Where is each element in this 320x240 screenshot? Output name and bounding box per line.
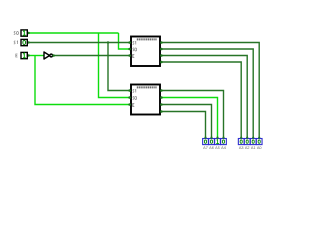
input S0 (14, 30, 27, 36)
svg-text:A6: A6 (209, 146, 214, 150)
svg-text:A4: A4 (221, 146, 226, 150)
wire U2 output Y1 to A5 (high) (160, 98, 218, 139)
svg-text:A7: A7 (203, 146, 208, 150)
inverter NOT gate on E line (44, 52, 55, 59)
wire U1 output Y2 to A2 (160, 56, 247, 139)
wire S1 branch vertical to U2 (108, 43, 131, 91)
output A6 (209, 139, 215, 151)
wire U2 output Y2 to A6 (160, 105, 212, 139)
wire NOT-E from inverter to U1 enable (53, 55, 131, 57)
U1 pin S0 label (133, 48, 135, 51)
wire E branch vertical to U2 enable (35, 56, 131, 105)
svg-text:A3: A3 (239, 146, 244, 150)
wire end nodes at output probes (204, 137, 260, 139)
wire U1 output Y3 to A3 (160, 62, 241, 138)
output A4 (221, 139, 227, 151)
U2 pin E label (133, 104, 135, 107)
node at input S1 pin (27, 41, 29, 43)
wire S1 horizontal into U1 pin S1 (28, 42, 131, 44)
U1 pin E label (133, 55, 135, 58)
output A3 (238, 139, 244, 151)
svg-text:A0: A0 (257, 146, 262, 150)
node at input S0 pin (27, 32, 29, 34)
input S1 (14, 39, 27, 45)
wire S0 jog down into U1 pin S0 (119, 33, 131, 49)
svg-text:A1: A1 (251, 146, 256, 150)
output A7 (203, 139, 209, 151)
pin connection nodes on U1 and U2 (128, 41, 162, 113)
node at input E pin (27, 54, 29, 56)
junction S1 branch (107, 41, 109, 43)
inverter output node (52, 54, 55, 57)
output A2 (244, 139, 250, 151)
output A0 (256, 139, 262, 151)
input E (16, 52, 27, 58)
wire S0 branch vertical to U2 (99, 33, 131, 98)
U1 pin S1 label (133, 41, 135, 44)
subcircuit U1 2to4 DECODER (upper) (131, 37, 160, 67)
output A5 (high) (215, 139, 221, 151)
wire S0 horizontal from input to jog (28, 32, 119, 34)
wire U2 output Y0 to A4 (160, 91, 224, 139)
output A1 (250, 139, 256, 151)
wire U1 output Y1 to A1 (160, 49, 253, 138)
wire U1 output Y0 to A0 (160, 43, 259, 139)
svg-text:A2: A2 (245, 146, 250, 150)
svg-text:A5: A5 (215, 146, 220, 150)
wire U2 output Y3 to A7 (160, 112, 206, 139)
subcircuit U2 2to4 DECODER (lower) (131, 85, 160, 115)
U2 pin S0 label (133, 96, 135, 99)
U2 pin S1 label (133, 89, 135, 92)
wire E from input to inverter (28, 55, 44, 57)
